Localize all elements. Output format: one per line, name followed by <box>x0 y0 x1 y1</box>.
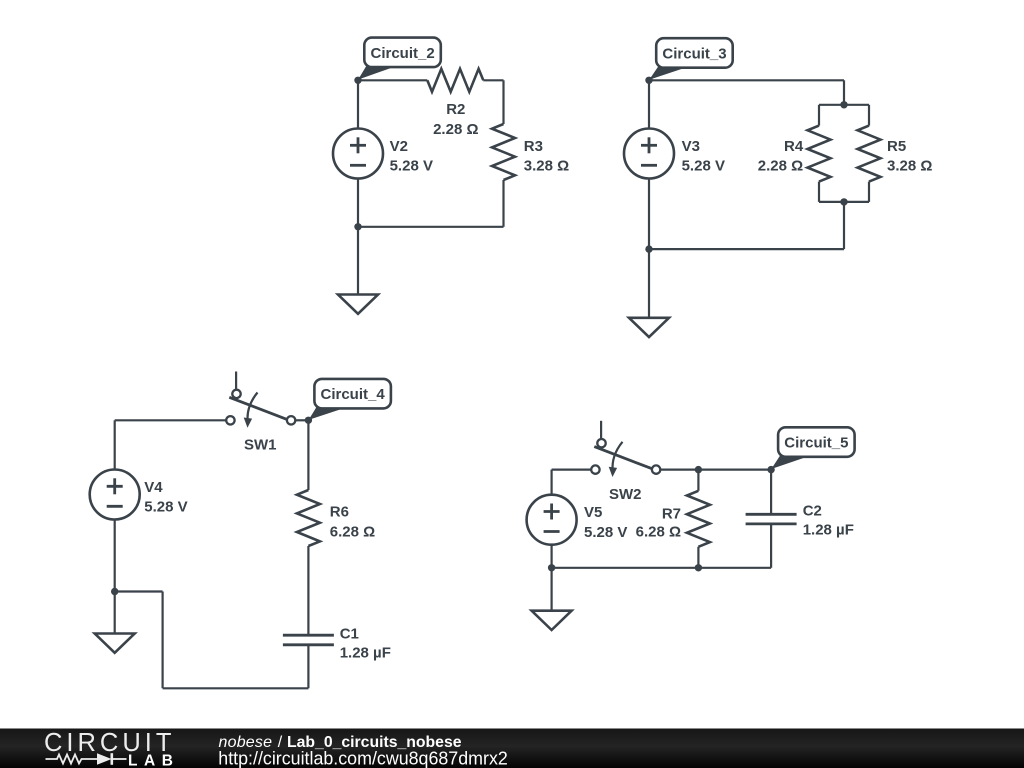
resistor R4 <box>808 126 831 182</box>
switch SW2 right terminal <box>652 465 660 473</box>
wire C2 to bottom rail <box>770 524 772 568</box>
svg-text:3.28 Ω: 3.28 Ω <box>887 158 932 175</box>
node V4 bottom junction <box>111 588 118 595</box>
svg-text:V3: V3 <box>682 138 700 155</box>
voltage source V2 <box>333 129 383 179</box>
resistor R3 <box>492 124 515 180</box>
svg-text:V5: V5 <box>584 504 602 521</box>
wire bottom run <box>163 687 309 689</box>
wire R3 to bottom rail <box>502 180 504 227</box>
svg-text:R5: R5 <box>887 138 906 155</box>
switch SW1 right terminal <box>287 416 295 424</box>
wire R2 to corner <box>483 79 503 81</box>
voltage source V3 <box>624 129 674 179</box>
wire to V4 bottom node <box>115 590 163 592</box>
svg-text:SW2: SW2 <box>609 486 642 503</box>
callout label Circuit_4 <box>309 379 391 420</box>
capacitor C1 plates <box>283 634 334 637</box>
svg-text:Circuit_5: Circuit_5 <box>784 434 848 451</box>
node R7 top junction <box>695 466 702 473</box>
node top-left junction <box>645 77 652 84</box>
svg-text:R3: R3 <box>524 138 543 155</box>
switch SW1 top terminal <box>232 390 240 398</box>
svg-text:R2: R2 <box>446 101 465 118</box>
wire to switch left terminal <box>552 469 592 471</box>
wire V3 bottom through node to ground <box>648 179 650 318</box>
svg-text:R7: R7 <box>662 505 681 522</box>
svg-text:5.28 V: 5.28 V <box>682 158 725 175</box>
svg-text:5.28 V: 5.28 V <box>584 524 627 541</box>
resistor R2 <box>427 69 483 92</box>
switch SW2 blade <box>594 447 652 469</box>
svg-text:R4: R4 <box>784 138 804 155</box>
wire R4 bottom lead <box>818 182 820 202</box>
resistor R6 <box>297 490 320 546</box>
svg-text:5.28 V: 5.28 V <box>390 158 433 175</box>
svg-text:C2: C2 <box>803 503 822 520</box>
wire R6 to C1 <box>307 546 309 635</box>
svg-text:LAB: LAB <box>128 753 173 768</box>
svg-text:Circuit_4: Circuit_4 <box>320 386 385 403</box>
ground <box>95 634 135 653</box>
wire parallel bottom bar <box>819 201 869 203</box>
switch SW2 top throw stub <box>600 421 602 439</box>
svg-text:2.28 Ω: 2.28 Ω <box>433 121 478 138</box>
CircuitLab logo resistor-diode glyph <box>46 753 127 765</box>
wire R4 top lead <box>818 105 820 126</box>
wire bottom rail <box>552 567 772 569</box>
wire down to parallel pair <box>843 80 845 105</box>
switch SW2 toggle arrow <box>613 442 623 471</box>
wire node to V3 top <box>648 80 650 128</box>
wire R7 bottom lead <box>697 547 699 568</box>
svg-text:C1: C1 <box>340 625 359 642</box>
wire corner to R3 <box>502 80 504 124</box>
switch SW1 left terminal <box>226 416 234 424</box>
switch SW2 top terminal <box>597 439 605 447</box>
svg-text:http://circuitlab.com/cwu8q687: http://circuitlab.com/cwu8q687dmrx2 <box>218 748 508 768</box>
svg-text:1.28 µF: 1.28 µF <box>803 521 854 538</box>
resistor R5 <box>858 126 881 182</box>
wire R7 top lead <box>697 470 699 491</box>
ground <box>532 611 572 630</box>
wire node to R2 <box>358 79 427 81</box>
wire R5 bottom lead <box>868 182 870 202</box>
wire V5 bottom through node to ground <box>550 545 552 611</box>
wire V2 bottom through node to ground <box>357 179 359 295</box>
wire top-left corner to V4 <box>114 420 116 469</box>
node R7 bottom junction <box>695 564 702 571</box>
voltage source V5 <box>527 495 577 545</box>
wire bottom rail <box>649 248 844 250</box>
svg-text:V4: V4 <box>144 479 163 496</box>
svg-text:V2: V2 <box>390 138 408 155</box>
svg-text:CIRCUIT: CIRCUIT <box>44 729 175 757</box>
ground <box>629 318 669 337</box>
svg-text:R6: R6 <box>330 504 349 521</box>
node top-left junction <box>354 77 361 84</box>
resistor R7 <box>687 491 710 547</box>
svg-text:5.28 V: 5.28 V <box>144 499 187 516</box>
wire V4 bottom through node to ground <box>114 520 116 634</box>
switch SW2 left terminal <box>591 465 599 473</box>
svg-text:1.28 µF: 1.28 µF <box>340 644 391 661</box>
wire switch to C2 node <box>660 469 771 471</box>
wire node down to C2 <box>770 470 772 515</box>
svg-text:Circuit_2: Circuit_2 <box>370 45 434 62</box>
callout label Circuit_2 <box>358 38 441 80</box>
svg-text:6.28 Ω: 6.28 Ω <box>330 524 375 541</box>
wire C1 to bottom corner <box>307 645 309 689</box>
node bottom junction <box>645 245 652 252</box>
wire up left side <box>162 592 164 689</box>
svg-text:2.28 Ω: 2.28 Ω <box>758 158 803 175</box>
node C2 top junction <box>767 466 774 473</box>
wire to switch left terminal <box>115 419 227 421</box>
svg-text:SW1: SW1 <box>244 437 277 454</box>
wire top-left corner to V5 <box>550 470 552 495</box>
node parallel top junction <box>840 101 847 108</box>
wire top rail <box>649 79 844 81</box>
callout label Circuit_3 <box>649 38 733 80</box>
footer bar <box>0 729 1024 768</box>
wire node to V2 top <box>357 80 359 128</box>
node V5 bottom junction <box>548 564 555 571</box>
wire down from parallel pair <box>843 202 845 249</box>
node switch output junction <box>305 417 312 424</box>
node bottom junction <box>354 223 361 230</box>
wire bottom rail <box>358 226 504 228</box>
wire switch to node <box>296 419 309 421</box>
wire parallel top bar <box>819 104 869 106</box>
capacitor C2 plates <box>746 513 797 516</box>
callout label Circuit_5 <box>771 427 854 469</box>
svg-text:Circuit_3: Circuit_3 <box>662 45 726 62</box>
ground <box>338 295 378 314</box>
switch SW1 toggle arrow <box>248 393 258 422</box>
voltage source V4 <box>90 470 140 520</box>
wire node down to R6 <box>307 420 309 490</box>
node parallel bottom junction <box>840 198 847 205</box>
svg-text:3.28 Ω: 3.28 Ω <box>524 158 569 175</box>
svg-text:6.28 Ω: 6.28 Ω <box>636 524 681 541</box>
switch SW1 top throw stub <box>235 372 237 390</box>
wire R5 top lead <box>868 105 870 126</box>
switch SW1 blade <box>229 397 287 419</box>
